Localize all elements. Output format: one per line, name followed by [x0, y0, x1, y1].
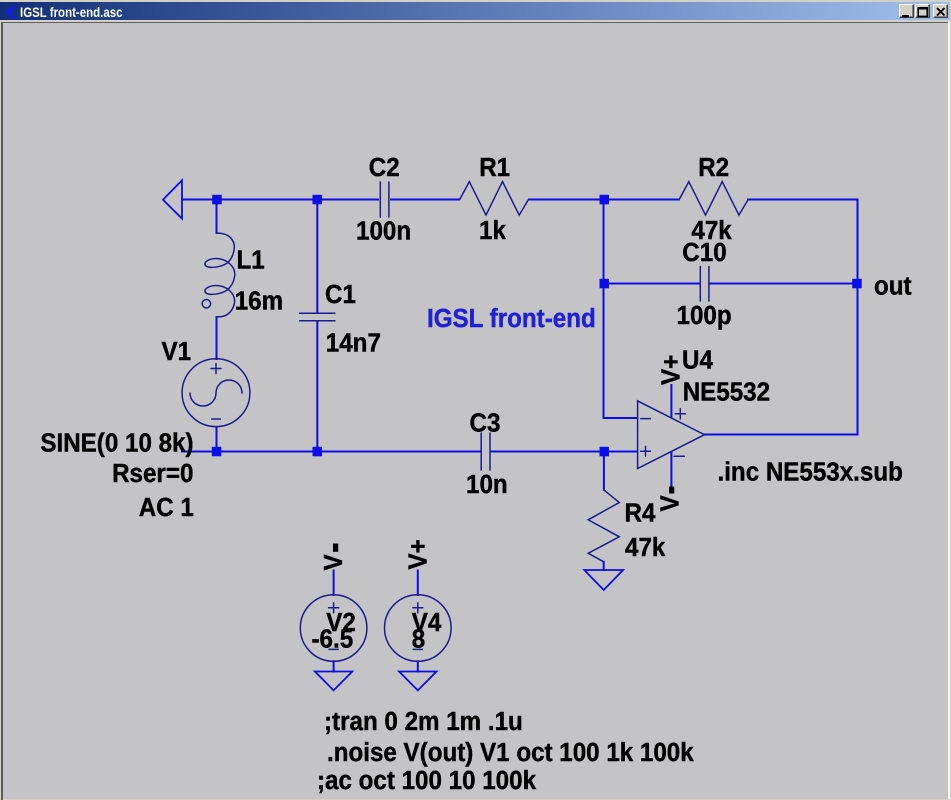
wire L1 top pin — [216, 200, 218, 234]
wire V4 top pin — [417, 571, 419, 596]
svg-text:47k: 47k — [625, 533, 665, 562]
wire R4 bottom pin — [603, 562, 605, 570]
svg-text:U4: U4 — [682, 346, 713, 375]
svg-text:14n7: 14n7 — [326, 329, 381, 358]
wire out column vertical — [857, 200, 859, 435]
capacitor C1 — [300, 313, 335, 320]
junction node C1 — [212, 447, 222, 457]
source V2 — [300, 595, 367, 662]
svg-text:AC 1: AC 1 — [139, 493, 194, 522]
svg-text:;tran 0 2m 1m .1u: ;tran 0 2m 1m .1u — [324, 707, 523, 736]
window borders — [2, 22, 948, 24]
svg-text:;ac oct 100 10 100k: ;ac oct 100 10 100k — [317, 766, 536, 795]
op-amp inverting input mark — [641, 418, 651, 420]
svg-text:out: out — [874, 272, 912, 301]
wire C10 left — [604, 283, 699, 285]
svg-text:C3: C3 — [470, 409, 501, 438]
svg-text:C10: C10 — [682, 238, 726, 267]
svg-text:-6.5: -6.5 — [312, 625, 354, 654]
svg-text:V: V — [656, 495, 685, 511]
svg-text:C2: C2 — [369, 153, 400, 182]
wire V2 bottom pin — [333, 661, 335, 671]
svg-text:SINE(0 10 8k): SINE(0 10 8k) — [40, 429, 193, 458]
wire L1 to V1 — [216, 317, 218, 359]
junction node C2 — [313, 447, 323, 457]
svg-text:IGSL front-end: IGSL front-end — [427, 304, 596, 333]
junction node A1 — [212, 195, 222, 205]
maximize button — [915, 4, 930, 18]
junction node C3 — [600, 447, 610, 457]
svg-text:100p: 100p — [677, 301, 732, 330]
ground under R4 — [584, 570, 623, 590]
junction node A2 — [313, 195, 323, 205]
junction node B2 — [600, 279, 610, 289]
svg-text:.inc NE553x.sub: .inc NE553x.sub — [718, 458, 903, 487]
wire bottom main y=451.5 — [182, 451, 480, 453]
svg-text:L1: L1 — [237, 246, 265, 275]
op-amp V- rail mark — [674, 455, 684, 457]
resistor R2 — [679, 182, 748, 216]
svg-text:Rser=0: Rser=0 — [112, 459, 193, 488]
app icon — [3, 2, 19, 20]
svg-text:16m: 16m — [235, 287, 283, 316]
svg-text:1k: 1k — [479, 216, 506, 245]
wire opamp output — [705, 434, 858, 436]
svg-text:R1: R1 — [479, 153, 510, 182]
capacitor C3 — [481, 433, 490, 470]
svg-text:C1: C1 — [325, 280, 356, 309]
svg-text:NE5532: NE5532 — [683, 378, 770, 407]
svg-text:10n: 10n — [466, 470, 508, 499]
svg-text:V+: V+ — [404, 539, 433, 569]
svg-text:R4: R4 — [625, 499, 656, 528]
wire C2 to R1 — [391, 199, 459, 201]
op-amp non-inverting input mark — [641, 446, 651, 456]
junction node out — [852, 279, 862, 289]
svg-text:100n: 100n — [356, 217, 411, 246]
close button — [933, 4, 948, 18]
inductor L1 — [205, 233, 235, 317]
ground under V4 — [399, 672, 436, 691]
wire R2 right to out column — [748, 199, 858, 201]
wire V4 bottom pin — [417, 661, 419, 671]
svg-text:.noise V(out) V1 oct 100 1k 10: .noise V(out) V1 oct 100 1k 100k — [327, 738, 694, 767]
resistor R4 — [588, 490, 619, 562]
wire V1 bottom pin — [216, 427, 218, 452]
wire R1 to node — [529, 199, 679, 201]
resistor R1 — [460, 182, 529, 216]
window title bar — [0, 2, 950, 20]
wire C1 top pin — [316, 200, 318, 313]
source V1 — [182, 359, 250, 427]
wire R4 top pin — [603, 452, 605, 490]
op-amp U4 — [638, 401, 705, 469]
minimize button — [899, 4, 914, 18]
capacitor C10 — [700, 267, 709, 302]
svg-text:V: V — [319, 554, 348, 570]
svg-text:V+: V+ — [657, 355, 686, 385]
capacitor C2 — [380, 182, 389, 217]
junction node B1 — [600, 195, 610, 205]
wire opamp V- pin — [670, 452, 672, 487]
wire C3 to opamp plus — [491, 451, 637, 453]
wire C10 right — [710, 283, 857, 285]
svg-text:V1: V1 — [162, 337, 192, 366]
wire feedback vertical x=603.5 — [604, 200, 638, 419]
wire opamp V+ pin — [670, 385, 672, 418]
port arrow input flag — [163, 180, 182, 218]
svg-text:8: 8 — [412, 625, 425, 654]
ground under V2 — [315, 672, 352, 691]
svg-text:R2: R2 — [698, 153, 729, 182]
wire V2 top pin — [333, 571, 335, 596]
wire top main y=199 — [182, 199, 378, 201]
wire C1 bottom pin — [316, 322, 318, 452]
source V4 — [385, 595, 452, 662]
op-amp V+ rail mark — [675, 409, 685, 419]
